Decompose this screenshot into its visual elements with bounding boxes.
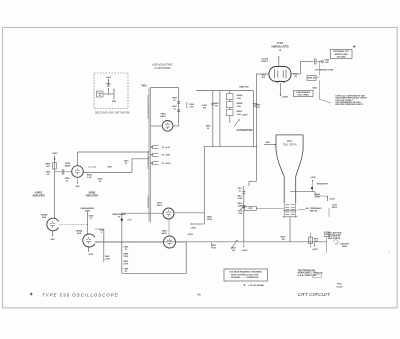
svg-text:R863A: R863A — [237, 94, 244, 97]
svg-text:470K: 470K — [238, 197, 243, 200]
svg-text:+225V: +225V — [329, 199, 336, 201]
svg-text:-150V: -150V — [88, 254, 94, 256]
svg-text:WITH CONTROLS SET FOR: WITH CONTROLS SET FOR — [231, 274, 259, 276]
svg-text:AMPLIFIER: AMPLIFIER — [33, 194, 46, 197]
svg-text:1M: 1M — [257, 107, 260, 109]
svg-text:220K: 220K — [207, 219, 212, 221]
svg-text:CRT ANODE CONN: CRT ANODE CONN — [315, 68, 334, 71]
svg-text:2.2M: 2.2M — [237, 106, 242, 108]
svg-text:T30L CRT-A: T30L CRT-A — [282, 143, 297, 147]
svg-text:CRT CATHODE: CRT CATHODE — [327, 232, 343, 235]
svg-text:3.3K: 3.3K — [87, 177, 92, 179]
svg-text:EXTERNAL CRT: EXTERNAL CRT — [333, 50, 349, 53]
svg-text:VOLTAGE READINGS OBTAINED: VOLTAGE READINGS OBTAINED — [229, 271, 262, 274]
svg-text:V864: V864 — [161, 230, 167, 233]
svg-text:TO -150V: TO -150V — [162, 155, 171, 157]
svg-text:INTENSITY: INTENSITY — [317, 183, 329, 185]
svg-text:+350V: +350V — [187, 234, 194, 236]
svg-text:R863B: R863B — [237, 103, 244, 105]
svg-text:+350V: +350V — [310, 177, 317, 179]
svg-text:TO +225V: TO +225V — [162, 163, 172, 165]
svg-text:R863C: R863C — [237, 111, 244, 113]
svg-text:8-2-56: 8-2-56 — [336, 287, 343, 289]
svg-text:+X NETWORK: +X NETWORK — [153, 66, 170, 70]
svg-text:2.2M: 2.2M — [237, 98, 242, 100]
svg-text:10M: 10M — [314, 241, 318, 243]
svg-text:6AL5: 6AL5 — [161, 232, 167, 235]
svg-text:+350V: +350V — [312, 249, 319, 251]
svg-text:1M: 1M — [282, 239, 285, 241]
svg-text:AMPLIFIER: AMPLIFIER — [86, 195, 99, 198]
svg-text:V864A: V864A — [76, 229, 83, 232]
svg-text:+350V: +350V — [190, 228, 197, 230]
svg-text:MAX INTENS: MAX INTENS — [328, 237, 341, 240]
svg-text:GND: GND — [265, 142, 270, 144]
svg-text:ANODE LEAD: ANODE LEAD — [335, 53, 349, 56]
svg-text:PDA: PDA — [287, 139, 293, 143]
svg-text:ARE 2W: ARE 2W — [310, 210, 318, 213]
svg-text:PHA: PHA — [337, 283, 342, 286]
svg-text:2M: 2M — [232, 250, 235, 252]
svg-text:BEFORE ORDERING PARTS: BEFORE ORDERING PARTS — [335, 104, 363, 106]
svg-text:+350V: +350V — [241, 250, 248, 252]
svg-text:47K: 47K — [212, 247, 216, 250]
svg-text:TYPE 536 OSCILLOSCOPE: TYPE 536 OSCILLOSCOPE — [42, 293, 119, 298]
svg-text:ASTIGMATISM: ASTIGMATISM — [237, 129, 253, 132]
svg-text:GATE: GATE — [85, 209, 91, 212]
svg-text:V858B: V858B — [88, 193, 95, 195]
svg-text:L600: L600 — [106, 77, 112, 79]
svg-text:(CRT GRID): (CRT GRID) — [298, 95, 309, 97]
svg-text:UNREGULATED: UNREGULATED — [271, 45, 289, 48]
svg-text:HORIZ: HORIZ — [35, 192, 43, 194]
svg-text:CRT CIRCUIT: CRT CIRCUIT — [298, 292, 331, 298]
svg-text:2.2M: 2.2M — [237, 114, 242, 116]
svg-text:+350 ADJUSTING: +350 ADJUSTING — [151, 63, 172, 67]
svg-text:R868 3M: R868 3M — [308, 78, 316, 80]
svg-text:DECOUPLING NETWORK: DECOUPLING NETWORK — [95, 111, 130, 115]
svg-text:= DC NO SIGNAL: = DC NO SIGNAL — [248, 284, 265, 287]
svg-text:GRID: GRID — [342, 246, 348, 248]
svg-text:220K: 220K — [238, 206, 243, 208]
svg-text:AA: AA — [197, 293, 201, 296]
svg-text:GND: GND — [76, 186, 81, 188]
svg-text:+H.V.: +H.V. — [127, 220, 132, 222]
svg-text:270K: 270K — [123, 264, 128, 266]
svg-text:GND: GND — [112, 101, 117, 103]
svg-text:T601: T601 — [141, 85, 147, 88]
svg-text:.01: .01 — [98, 95, 101, 97]
svg-text:NORMAL — — OPERATION: NORMAL — — OPERATION — [231, 276, 259, 279]
svg-text:100K: 100K — [105, 259, 110, 261]
svg-text:SHT 2862: SHT 2862 — [337, 56, 347, 58]
svg-text:1M: 1M — [294, 76, 297, 78]
svg-text:V862,3: V862,3 — [261, 61, 269, 63]
svg-text:+350V: +350V — [241, 115, 248, 117]
svg-text:6AL5: 6AL5 — [157, 204, 163, 207]
svg-text:T.P.: T.P. — [117, 216, 120, 218]
svg-text:GND: GND — [51, 239, 56, 241]
svg-text:TO +6.3V: TO +6.3V — [162, 147, 171, 149]
svg-text:6AL5: 6AL5 — [160, 115, 166, 118]
svg-text:10 KV: 10 KV — [277, 43, 284, 45]
svg-text:2-5642: 2-5642 — [261, 58, 269, 61]
svg-text:150K: 150K — [123, 256, 128, 258]
svg-text:+225V: +225V — [51, 153, 58, 155]
svg-text:-1350V: -1350V — [281, 97, 288, 99]
svg-text:R868 10K: R868 10K — [239, 87, 249, 89]
svg-text:6AN8: 6AN8 — [65, 165, 71, 168]
